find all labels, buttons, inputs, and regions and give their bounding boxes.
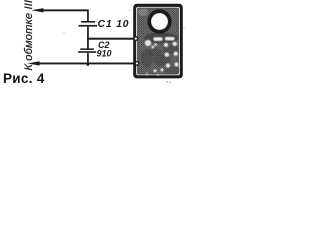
node: junction at C2 bottom / bottom wire (87, 63, 90, 66)
input terminal T1 (134, 37, 138, 41)
CRT screen (147, 9, 171, 33)
svg-text:К обмотке III: К обмотке III (23, 0, 35, 71)
page specks (64, 10, 185, 84)
wire: lead C2 bottom to bottom wire (87, 53, 89, 64)
svg-text:910: 910 (97, 49, 112, 59)
wire: middle horizontal wire to oscilloscope input (87, 38, 135, 40)
wire: lead C1 bottom to middle node (87, 27, 89, 40)
control dots (164, 43, 168, 47)
wire: bottom lead to winding III with arrow (28, 61, 137, 65)
wire: vertical lead from top corner to C1 (87, 9, 89, 21)
knob (145, 40, 151, 46)
panel edge shading (138, 8, 179, 74)
wire: top lead to winding III (arrow) (32, 8, 89, 12)
svg-text:Рис. 4: Рис. 4 (3, 71, 45, 86)
wire: lead from middle node to C2 (87, 40, 89, 49)
svg-text:С1 10: С1 10 (98, 18, 129, 30)
oscilloscope body (133, 4, 183, 79)
dark band under CRT (144, 33, 178, 44)
slots below CRT (145, 37, 179, 76)
capacitor C2 (78, 48, 96, 52)
input terminal T2 (135, 62, 139, 66)
capacitor C1 (79, 21, 97, 27)
